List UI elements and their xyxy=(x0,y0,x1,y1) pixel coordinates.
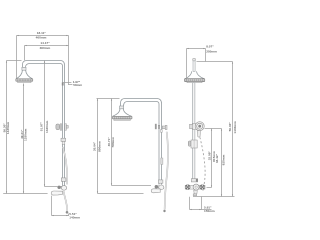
valve nut above body (right unit) xyxy=(191,179,197,182)
svg-text:51.97": 51.97" xyxy=(39,121,43,131)
hand shower hose (middle unit) xyxy=(165,132,168,210)
svg-text:50mm: 50mm xyxy=(73,83,82,87)
hand shower hose lower run (left unit) xyxy=(64,191,67,211)
upper stem pipe (right unit) xyxy=(193,61,195,72)
svg-text:1250mm: 1250mm xyxy=(24,128,28,141)
dimension 14.17in 360mm (head center to wall) xyxy=(25,36,69,85)
valve body circle (right unit) xyxy=(193,184,199,190)
svg-text:890mm: 890mm xyxy=(97,141,101,152)
svg-text:360mm: 360mm xyxy=(40,46,51,50)
svg-text:925mm: 925mm xyxy=(221,154,225,165)
shower arm and riser pipe (left unit) xyxy=(23,61,65,186)
shower head bottom lip (right unit) xyxy=(187,82,202,83)
shower head cone side view (right unit) xyxy=(185,71,204,78)
svg-text:1430mm: 1430mm xyxy=(233,121,237,134)
svg-text:8.07": 8.07" xyxy=(206,45,214,49)
vertical dimension 56.30in 1430mm (left unit total height) xyxy=(7,61,22,194)
bottom extension line (right unit spout bottom) xyxy=(193,196,235,198)
dimension 1.97in 50mm (supply offset) xyxy=(63,83,72,85)
hand shower hose dashed (right unit) xyxy=(200,137,205,190)
valve body and diverter knob (middle unit) xyxy=(155,185,164,190)
hand shower holder bracket (left unit) xyxy=(56,124,68,130)
svg-text:56.30": 56.30" xyxy=(228,122,232,132)
hand shower face (right unit) xyxy=(195,122,204,131)
svg-text:150mm: 150mm xyxy=(204,209,215,213)
hand shower hose upper run (left unit) xyxy=(63,147,67,185)
vertical dimension 35.04in 890mm (middle unit arm to spout bottom) xyxy=(98,99,144,194)
riser pipe (right unit) xyxy=(192,83,195,179)
top extension line (middle unit arm level) xyxy=(97,98,120,100)
valve crossbar (right unit) xyxy=(185,185,205,189)
svg-text:14.17": 14.17" xyxy=(40,41,50,45)
valve nut above body (left unit) xyxy=(61,178,66,181)
svg-text:460mm: 460mm xyxy=(36,36,47,40)
dimension 18.11in 460mm (left unit width overall) xyxy=(17,36,69,79)
hose slider clip (middle unit) xyxy=(161,158,163,164)
shower head bottom lip (left unit) xyxy=(18,81,31,82)
extension line at valve center (right unit) xyxy=(207,187,212,189)
shower head rim spray band (left unit) xyxy=(16,79,33,81)
hand shower handle end nut (left unit) xyxy=(61,138,66,144)
shower head bottom lip (middle unit) xyxy=(114,119,130,120)
valve right cross handle (right unit) xyxy=(200,185,205,190)
hand shower holder bracket (middle unit) xyxy=(155,124,167,132)
dimension 5.51in 140mm (spout reach) xyxy=(52,196,70,216)
wall supply fitting on riser (left unit) xyxy=(62,82,64,85)
svg-text:18.11": 18.11" xyxy=(37,31,47,35)
hand shower handle (right unit) xyxy=(197,131,200,137)
vertical dimension 49.21in 1250mm (head to bottom) xyxy=(23,84,25,194)
hand shower mount bracket (right unit) xyxy=(190,123,197,129)
svg-text:205mm: 205mm xyxy=(206,49,217,53)
shower head rim spray band (middle unit) xyxy=(112,116,132,119)
svg-text:32.09": 32.09" xyxy=(207,151,211,161)
shower head collar nut (middle unit) xyxy=(120,106,124,109)
svg-text:35.04": 35.04" xyxy=(93,141,97,151)
dimension 5.91in 150mm (spout offset) xyxy=(190,197,212,210)
top extension line (right unit pipe top) xyxy=(197,61,233,63)
svg-text:140mm: 140mm xyxy=(69,216,80,220)
hose end fitting (middle unit) xyxy=(163,210,165,212)
valve body and diverter knob (left unit) xyxy=(57,186,66,191)
svg-text:1320mm: 1320mm xyxy=(45,120,49,133)
shower head bell (middle unit) xyxy=(113,109,132,116)
vertical dimension 51.97in 1320mm (arm to valve) xyxy=(45,61,58,187)
vertical dimension 36.42in 925mm (hand shower to spout bottom) xyxy=(221,129,223,197)
valve left cross handle (right unit) xyxy=(185,185,190,190)
hose end fitting (left unit) xyxy=(66,211,69,214)
spout outlet below valve (right unit) xyxy=(193,190,197,195)
tub spout (left unit) xyxy=(51,191,62,195)
shower head bell (left unit) xyxy=(16,70,33,79)
shower arm and riser pipe (middle unit) xyxy=(121,99,162,185)
extension line at hand shower center (right unit) xyxy=(205,128,222,130)
shower head collar nut (left unit) xyxy=(22,67,26,70)
tub spout (middle unit) xyxy=(151,189,160,193)
vertical dimension 56.30in 1430mm (right unit total height) xyxy=(232,62,234,197)
vertical dimension 32.09in 815mm (hand shower to valve) xyxy=(211,129,213,188)
top finial ball (right unit) xyxy=(193,58,196,61)
svg-text:36.42": 36.42" xyxy=(215,153,219,163)
vertical dimension 30.71in 780mm (middle unit arm to valve) xyxy=(112,99,152,186)
valve nut above body (middle unit) xyxy=(158,180,163,183)
svg-text:1430mm: 1430mm xyxy=(6,121,10,134)
slider clamp with knob (right unit) xyxy=(188,140,197,148)
bottom extension line (left unit spout bottom) xyxy=(3,193,47,195)
svg-text:780mm: 780mm xyxy=(111,137,115,148)
dimension 8.07in 205mm (head diameter) xyxy=(187,49,206,81)
shower head rim spray band (right unit) xyxy=(184,79,204,82)
